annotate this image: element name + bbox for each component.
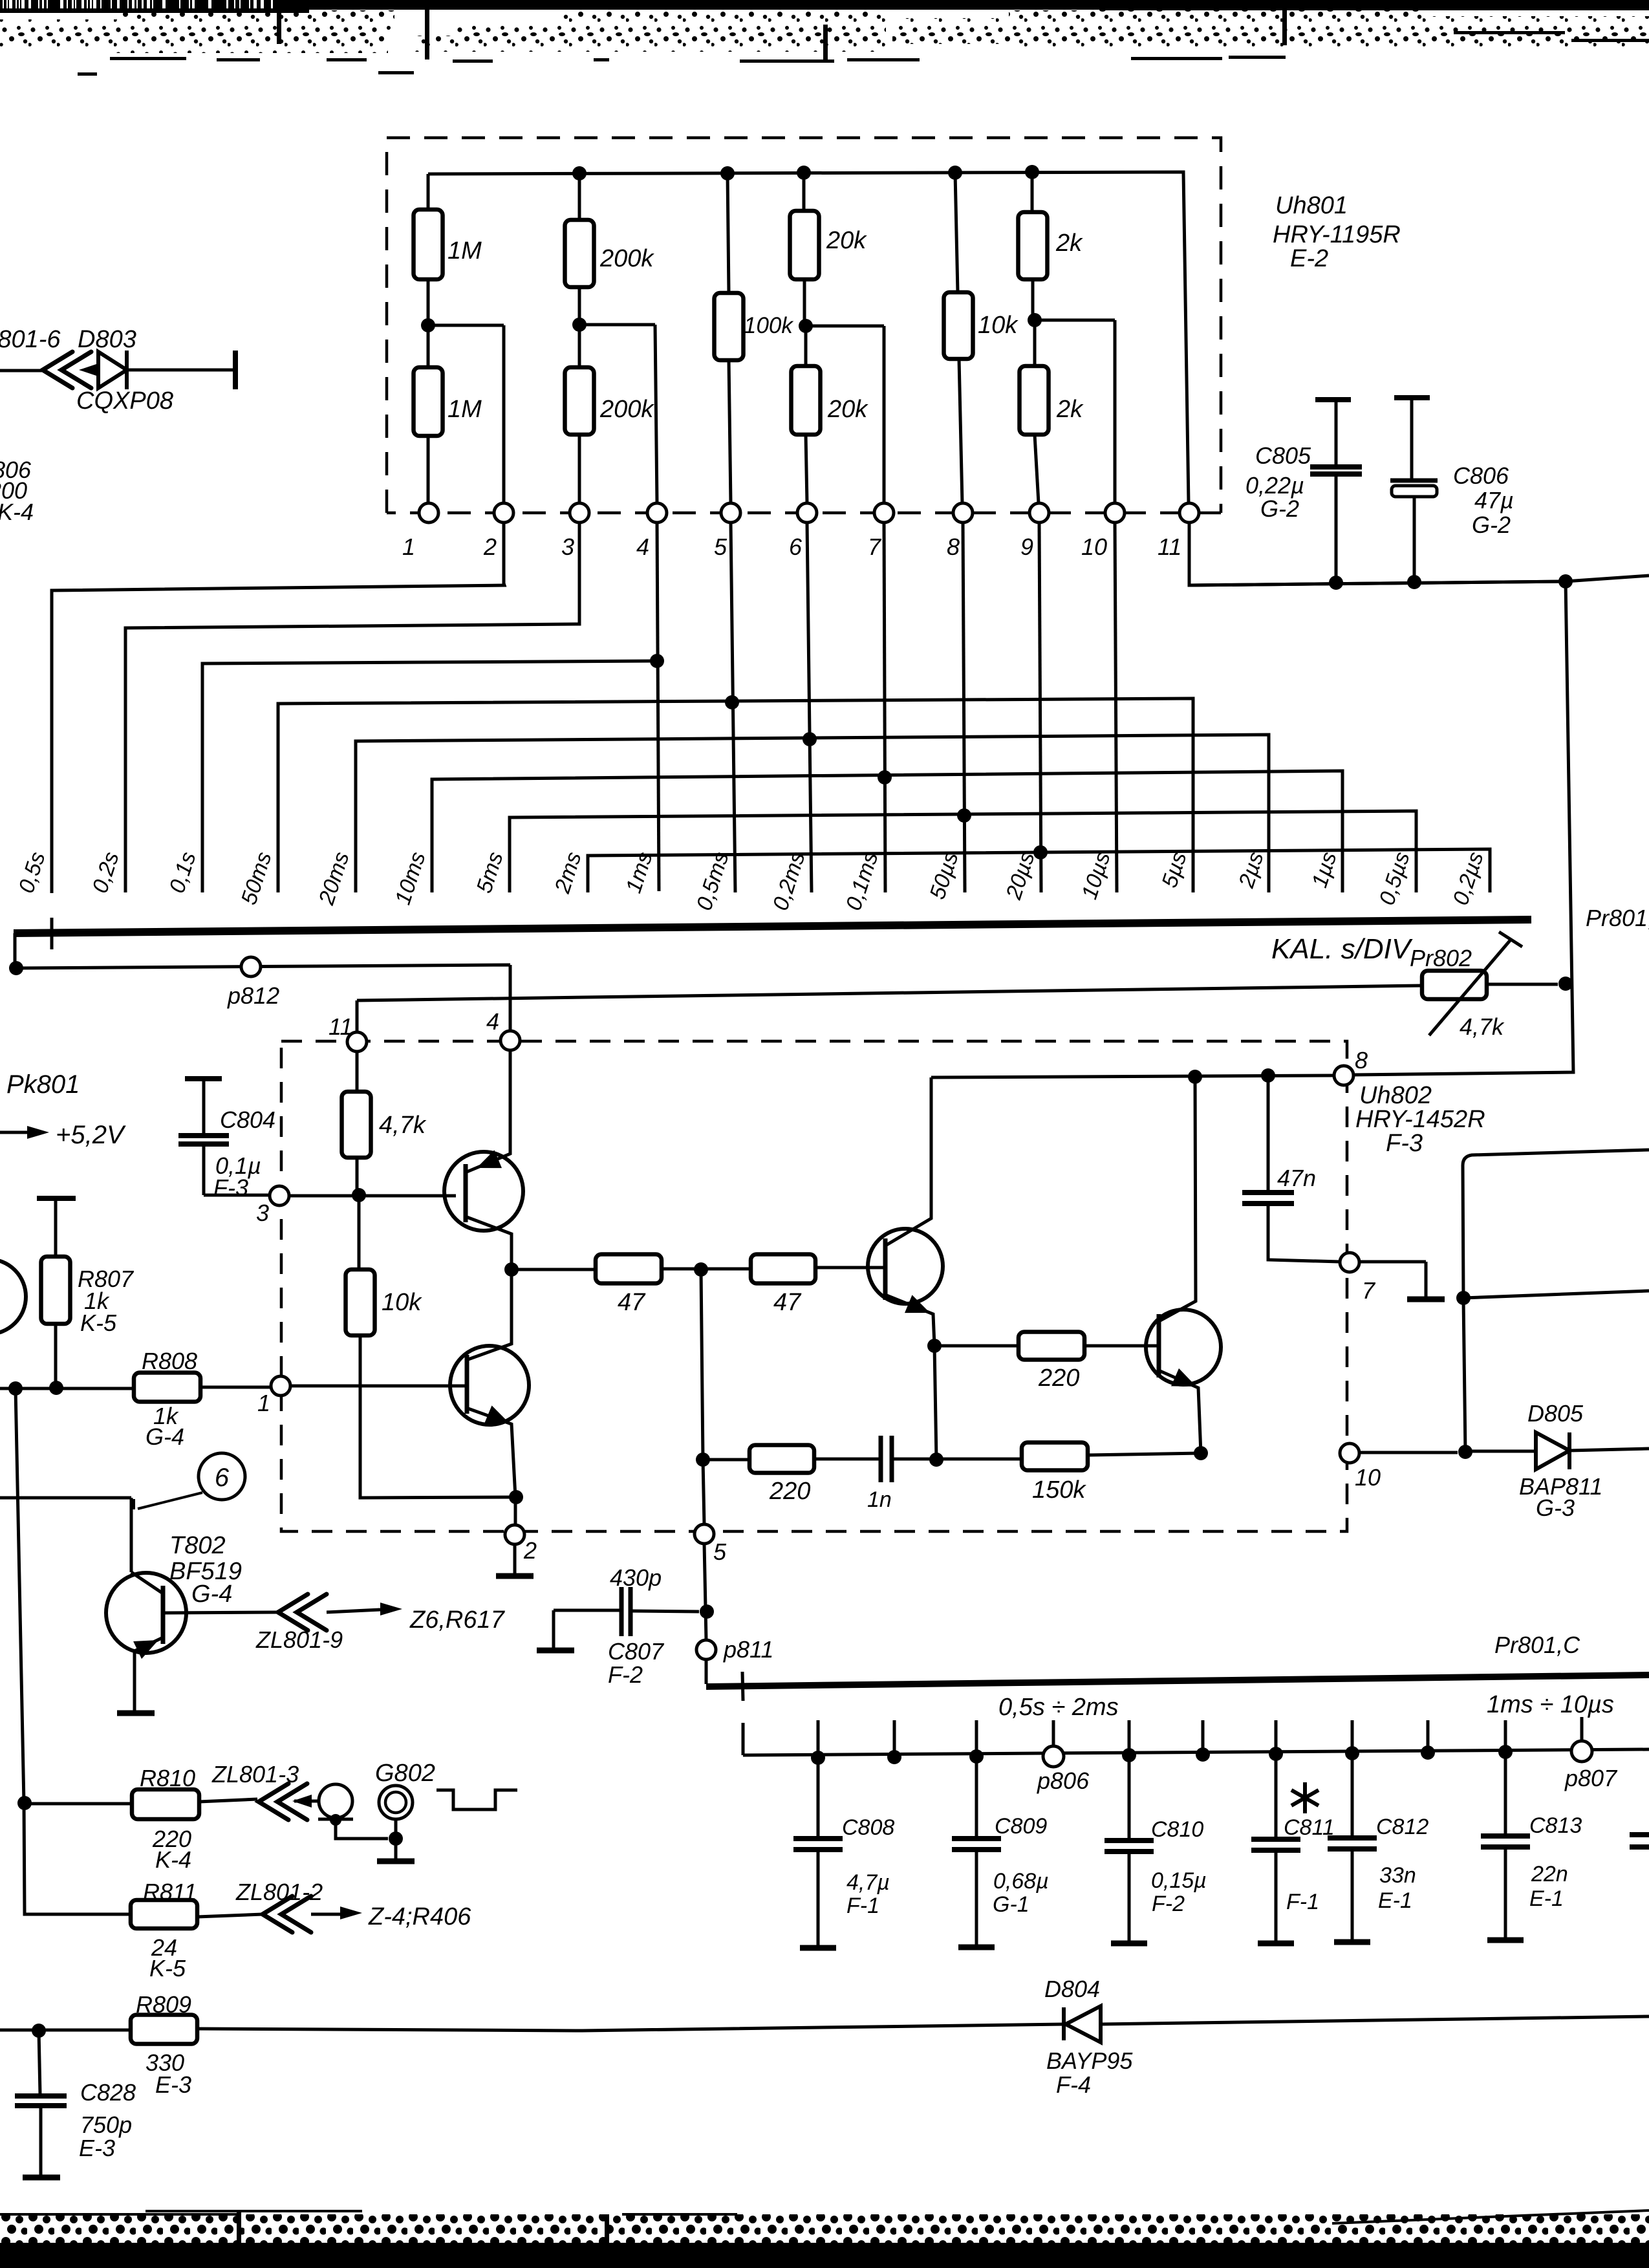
pin 6 of Uh801 <box>797 503 817 523</box>
wire 1M-1 bottom lead <box>427 279 430 325</box>
node dot R807 bottom <box>49 1381 63 1395</box>
wire pin11 to right vertical <box>1189 523 1566 585</box>
pin 8 of Uh801 <box>953 503 973 523</box>
svg-text:5: 5 <box>713 1539 727 1565</box>
resistor R808 <box>134 1373 200 1402</box>
svg-text:20k: 20k <box>826 227 867 254</box>
capacitor C828 <box>39 2031 40 2094</box>
svg-text:K-5: K-5 <box>149 1955 186 1982</box>
resistor 200k lower <box>578 325 581 367</box>
capacitor C813 <box>1504 1752 1507 1834</box>
wire pin7 to ground <box>1359 1262 1426 1297</box>
resistor 47 first <box>512 1268 596 1271</box>
node dot 47n top <box>1261 1068 1275 1083</box>
svg-text:K-5: K-5 <box>80 1310 117 1336</box>
node dot rail x1860 <box>1196 1747 1210 1762</box>
node dot 20k junction <box>799 319 813 333</box>
svg-text:C806: C806 <box>1453 462 1509 489</box>
pin 4 of Uh802 <box>501 1031 520 1050</box>
wire pin4 column down to 1ms tick <box>657 523 659 891</box>
capacitor 47n <box>1267 1075 1270 1191</box>
svg-text:7: 7 <box>868 534 882 560</box>
wire pin10 column to 10µs tick <box>1115 523 1117 892</box>
wire trunk mid to edge <box>1463 1291 1649 1298</box>
svg-text:4,7µ: 4,7µ <box>846 1870 890 1895</box>
wire 10k to pin8 <box>959 359 962 503</box>
capacitor C811 <box>1275 1754 1278 1837</box>
capacitor 1n <box>814 1458 880 1461</box>
wire 200k-1 top lead <box>578 173 581 220</box>
svg-text:0,68µ: 0,68µ <box>993 1869 1049 1894</box>
node dot C806 <box>1407 575 1421 589</box>
svg-text:220: 220 <box>769 1478 810 1505</box>
transistor T802 pnp <box>106 1573 186 1653</box>
svg-text:200k: 200k <box>599 396 654 423</box>
svg-text:G-2: G-2 <box>1260 495 1299 522</box>
wire pin1 to T2 base <box>290 1385 465 1388</box>
wire 2k-1 top lead <box>1031 172 1034 212</box>
svg-text:D804: D804 <box>1044 1976 1100 2002</box>
svg-text:2: 2 <box>483 534 497 560</box>
node dot 200k junction <box>572 318 587 332</box>
svg-text:E-2: E-2 <box>1290 245 1328 272</box>
wire 20k-1 bottom lead <box>803 279 806 326</box>
capacitor C808 <box>817 1758 820 1837</box>
wire pin5 column to 0,5ms tick <box>731 523 735 892</box>
svg-text:1ms ÷ 10µs: 1ms ÷ 10µs <box>1487 1691 1614 1718</box>
pin 5 of Uh801 <box>721 503 740 523</box>
resistor 20k upper <box>790 211 819 279</box>
svg-text:Pr802: Pr802 <box>1410 945 1472 971</box>
node dot row10ms-pin7 <box>878 770 892 784</box>
wire 220 to T4 base <box>1084 1345 1157 1348</box>
stub contact x1973 <box>1275 1720 1278 1754</box>
bus Pr801,C thick line <box>706 1675 1649 1687</box>
wire junction to pin2 <box>428 325 504 503</box>
svg-text:2k: 2k <box>1055 230 1083 257</box>
svg-text:430p: 430p <box>610 1564 662 1591</box>
wire p812 line <box>16 965 510 1031</box>
resistor 220 lower <box>703 1458 749 1462</box>
svg-text:ZL801-3: ZL801-3 <box>211 1761 299 1787</box>
node dot 1M junction <box>421 318 435 332</box>
svg-text:4,7k: 4,7k <box>379 1112 427 1139</box>
socket G802 <box>319 1784 352 1818</box>
svg-text:G-2: G-2 <box>1472 512 1511 538</box>
svg-text:47: 47 <box>773 1289 802 1316</box>
wire row 50ms-5µs <box>278 698 1193 892</box>
svg-text:E-3: E-3 <box>79 2135 115 2161</box>
svg-text:p812: p812 <box>227 982 279 1009</box>
stub contact x1265 <box>817 1720 820 1758</box>
node dot T4 collector <box>1188 1070 1202 1084</box>
wire emitter node to pin2 <box>514 1497 517 1525</box>
ground T802 emitter <box>117 1711 155 1716</box>
stub contact x2208 <box>1427 1720 1430 1753</box>
pin 2 of Uh801 <box>494 503 513 523</box>
node dot row20ms-pin6 <box>803 732 817 746</box>
svg-text:150k: 150k <box>1032 1476 1086 1504</box>
svg-text:750p: 750p <box>80 2111 132 2138</box>
svg-text:R808: R808 <box>142 1348 197 1374</box>
svg-text:1: 1 <box>257 1390 270 1416</box>
pin 4 of Uh801 <box>647 503 667 523</box>
svg-text:KAL. s/DIV: KAL. s/DIV <box>1271 933 1413 965</box>
svg-text:4,7k: 4,7k <box>1460 1013 1505 1040</box>
node dot 47-47 <box>694 1262 708 1277</box>
svg-text:p806: p806 <box>1037 1767 1090 1794</box>
wire node47 down to pin5 <box>701 1269 704 1524</box>
wire C807 to pin5 column <box>630 1611 699 1612</box>
ground G802 <box>377 1859 415 1864</box>
node dot trunk mid <box>1456 1291 1471 1305</box>
wire T802 base to ZL801-9 <box>163 1612 277 1613</box>
wire pin3 to base node <box>289 1194 456 1198</box>
svg-text:Uh802: Uh802 <box>1359 1082 1432 1109</box>
node dot 2k junction <box>1028 313 1042 327</box>
wire 10k feedback to emitter node <box>360 1335 514 1498</box>
potentiometer Pr802 <box>1422 971 1487 999</box>
svg-text:G-3: G-3 <box>1536 1495 1575 1521</box>
svg-text:D803: D803 <box>78 326 136 353</box>
svg-text:C811: C811 <box>1284 1815 1335 1840</box>
svg-text:C808: C808 <box>842 1815 894 1840</box>
node dot rail x2091 <box>1345 1746 1359 1760</box>
node dot G802 ground <box>389 1831 403 1846</box>
svg-text:E-1: E-1 <box>1529 1886 1564 1911</box>
wire 4,7k top lead <box>356 1052 359 1092</box>
svg-text:10k: 10k <box>382 1289 422 1316</box>
stub contact x2328 <box>1504 1720 1507 1752</box>
svg-text:F-4: F-4 <box>1056 2071 1091 2098</box>
svg-text:Z6,R617: Z6,R617 <box>409 1606 506 1634</box>
wire row 2ms-0,2µs <box>588 849 1490 892</box>
svg-text:p811: p811 <box>723 1636 773 1663</box>
svg-text:3: 3 <box>561 534 574 560</box>
wire pin8 column to 50µs tick <box>963 523 965 892</box>
node dot C828 <box>32 2024 46 2038</box>
wire T802 collector line <box>0 1498 131 1572</box>
svg-text:7: 7 <box>1362 1277 1376 1304</box>
pin 8 of Uh802 <box>1334 1066 1353 1085</box>
bus KAL s/DIV thick line <box>14 920 1531 933</box>
node dot D805 branch <box>1458 1445 1472 1459</box>
resistor 2k upper <box>1018 212 1048 279</box>
node dot p811 <box>700 1604 714 1619</box>
node dot T3 emitter <box>927 1339 942 1353</box>
ground below pin2 <box>513 1544 517 1574</box>
wire pin10 to D805 node <box>1359 1451 1458 1454</box>
connector ZL801-3 <box>259 1784 307 1820</box>
svg-text:F-1: F-1 <box>1286 1890 1319 1914</box>
node dot row5ms-pin8 <box>957 808 971 823</box>
resistor 1M upper <box>414 210 443 279</box>
svg-text:11: 11 <box>329 1013 352 1040</box>
svg-text:F-3: F-3 <box>1386 1130 1423 1157</box>
stub contact x1510 <box>975 1720 978 1756</box>
svg-text:F-1: F-1 <box>846 1894 879 1918</box>
wire pin9 column to 20µs tick <box>1039 523 1041 892</box>
pin 10 of Uh802 <box>1340 1443 1359 1463</box>
svg-text:20k: 20k <box>827 396 868 423</box>
svg-text:100k: 100k <box>744 313 793 338</box>
svg-text:F-2: F-2 <box>608 1661 643 1688</box>
svg-text:p807: p807 <box>1564 1765 1618 1791</box>
transistor fragment at left edge <box>0 1259 26 1334</box>
resistor 220 upper <box>934 1345 1018 1348</box>
node dot rail x1746 <box>1122 1748 1136 1762</box>
svg-text:5: 5 <box>714 534 727 560</box>
wire D805 to edge <box>1569 1449 1649 1451</box>
diode D804 <box>1062 2007 1066 2040</box>
svg-text:1M: 1M <box>447 237 482 265</box>
svg-text:R811: R811 <box>143 1879 197 1905</box>
svg-text:ZL801-2: ZL801-2 <box>235 1879 323 1905</box>
svg-text:33n: 33n <box>1379 1863 1416 1888</box>
svg-text:6: 6 <box>789 534 803 560</box>
wire D803 to terminal <box>127 369 234 372</box>
node dot rail x1973 <box>1269 1747 1283 1761</box>
stub contact x1746 <box>1128 1720 1131 1755</box>
svg-text:9: 9 <box>1020 534 1033 560</box>
wire p811 to bus Pr801C <box>705 1659 708 1684</box>
wire pin11 to Pr802 <box>357 986 1422 1000</box>
connector ZL801-6 with diode D803 <box>0 369 43 373</box>
wire pin5 column down <box>704 1544 706 1640</box>
node dot 20k top <box>797 166 811 180</box>
svg-text:+5,2V: +5,2V <box>56 1121 126 1149</box>
svg-text:6: 6 <box>215 1463 230 1492</box>
node dot row0,1s-pin4 <box>650 654 664 668</box>
svg-text:D805: D805 <box>1527 1400 1584 1427</box>
wire pin8 to right riser <box>1353 581 1573 1075</box>
IC Uh802 dashed outline <box>281 1041 1347 1531</box>
wire 47-2 to T3 base <box>815 1266 883 1269</box>
wire junction to pin4 <box>579 325 657 503</box>
svg-text:ZL801-6: ZL801-6 <box>0 326 61 353</box>
node dot Pr802 right <box>1558 977 1573 991</box>
wire T3 emitter link down <box>934 1346 936 1460</box>
node dot p812 line left <box>9 961 23 975</box>
connector ZL801-2 <box>263 1896 311 1932</box>
wire R809 long line <box>0 2029 131 2032</box>
node dot T1-T2 collectors <box>504 1262 519 1277</box>
transistor T1 pnp <box>444 1152 523 1231</box>
capacitor C810 <box>1128 1755 1131 1839</box>
svg-text:Z-4;R406: Z-4;R406 <box>368 1903 471 1930</box>
svg-text:2: 2 <box>523 1537 537 1564</box>
svg-text:1n: 1n <box>867 1487 892 1512</box>
node dot C805 <box>1329 576 1343 590</box>
pin 10 of Uh801 <box>1105 503 1125 523</box>
svg-text:HRY-1452R: HRY-1452R <box>1355 1106 1485 1133</box>
stub contact x1860 <box>1202 1720 1205 1755</box>
wire pin3 cascade 0,2s <box>125 523 579 892</box>
transistor T4 npn <box>1146 1310 1221 1385</box>
wire row 10ms-1µs <box>432 771 1342 892</box>
ground C807 <box>537 1648 574 1654</box>
node dot rail x1383 <box>887 1750 901 1764</box>
svg-text:1M: 1M <box>447 396 482 423</box>
node dot T4 emitter on pin10 row <box>1194 1446 1208 1460</box>
wire to D805 <box>1465 1450 1536 1453</box>
svg-text:11: 11 <box>1158 534 1181 560</box>
svg-text:1: 1 <box>402 534 415 560</box>
wire R809 to D804 to right edge <box>197 2024 1064 2031</box>
wire 1M-2 to pin1 <box>427 436 430 503</box>
node dot right riser top <box>1558 574 1573 589</box>
svg-text:0,22µ: 0,22µ <box>1245 472 1304 499</box>
wire right trunk branch <box>1463 1150 1649 1452</box>
svg-text:K-4: K-4 <box>0 499 34 525</box>
wire 1M-1 top lead <box>427 174 430 210</box>
svg-text:F-2: F-2 <box>1152 1892 1185 1916</box>
wire +5,2V supply arrow <box>0 1131 34 1134</box>
stub contact x1383 <box>893 1720 896 1757</box>
wire 200k-1 bottom lead <box>578 287 581 325</box>
node dot base T1 <box>352 1188 366 1202</box>
svg-text:10: 10 <box>1355 1464 1381 1491</box>
wire tick to cap rail <box>742 1723 745 1755</box>
svg-text:Pr801,C: Pr801,C <box>1494 1632 1580 1658</box>
wire 20k-1 top lead <box>803 173 806 211</box>
svg-text:C807: C807 <box>608 1638 665 1665</box>
svg-text:G-4: G-4 <box>191 1581 232 1608</box>
wire 100k to pin5 <box>729 360 731 503</box>
svg-text:K-4: K-4 <box>155 1846 191 1873</box>
wire collector bus to pin8 <box>931 1075 1334 1077</box>
svg-text:47n: 47n <box>1277 1165 1316 1191</box>
node dot rail x1510 <box>969 1749 984 1764</box>
wire G802 to ZL801-3 arrow <box>294 1800 321 1803</box>
resistor 10k Uh802 <box>358 1195 361 1269</box>
ground at pin7 <box>1407 1297 1445 1302</box>
svg-text:8: 8 <box>1355 1047 1368 1074</box>
capacitor C804 <box>185 1076 222 1081</box>
node dot rail x2328 <box>1498 1745 1513 1759</box>
wire 2k-2 to pin9 <box>1035 435 1039 503</box>
svg-text:0,5s ÷ 2ms: 0,5s ÷ 2ms <box>998 1694 1119 1721</box>
resistor 2k lower <box>1033 320 1037 366</box>
svg-text:220: 220 <box>1038 1365 1079 1392</box>
svg-text:8: 8 <box>947 534 960 560</box>
label C811 asterisk <box>1291 1782 1319 1813</box>
pin 7 of Uh801 <box>874 503 894 523</box>
node p807 <box>1580 1717 1584 1741</box>
svg-text:200k: 200k <box>599 245 654 272</box>
pin 3 of Uh801 <box>570 503 589 523</box>
stub contact x2091 <box>1351 1720 1354 1753</box>
capacitor C806 electrolytic <box>1394 395 1430 400</box>
pin 2 of Uh802 <box>505 1525 524 1544</box>
connector ZL801-9 <box>278 1594 327 1630</box>
svg-text:BAYP95: BAYP95 <box>1046 2047 1133 2074</box>
pin 11 of Uh801 <box>1180 503 1199 523</box>
resistor R811 <box>131 1900 197 1928</box>
IC Uh801 dashed outline <box>387 138 1221 513</box>
svg-text:C810: C810 <box>1151 1817 1203 1842</box>
node dot 100k top <box>720 166 735 180</box>
capacitor partial at right edge <box>1630 1835 1649 1847</box>
pin 3 of Uh802 <box>270 1186 289 1205</box>
resistor 100k <box>715 293 744 360</box>
diode D805 <box>1536 1432 1569 1469</box>
node dot 10k top <box>948 166 962 180</box>
pin 7 of Uh802 <box>1340 1253 1359 1272</box>
wire pin2 cascade 0,5s <box>52 523 504 893</box>
node dot 220-1n row <box>696 1453 710 1467</box>
svg-text:0,15µ: 0,15µ <box>1151 1868 1207 1893</box>
resistor 47 second <box>662 1268 751 1271</box>
wire 2k-1 bottom lead <box>1031 279 1035 320</box>
node dot row2ms-pin9 <box>1033 845 1048 859</box>
wire bus contact tick <box>742 1672 743 1701</box>
svg-text:Uh801: Uh801 <box>1275 192 1348 219</box>
node dot T2 emitter <box>509 1490 523 1504</box>
wire pin11 riser <box>356 1000 359 1032</box>
diode D803 <box>98 352 127 388</box>
svg-text:HRY-1195R: HRY-1195R <box>1273 221 1401 248</box>
svg-text:3: 3 <box>256 1200 269 1226</box>
wire 200k-2 to pin3 <box>578 435 581 503</box>
svg-text:R810: R810 <box>140 1765 195 1791</box>
wire 100k top lead <box>727 173 729 293</box>
resistor 150k <box>936 1458 1022 1461</box>
svg-text:E-3: E-3 <box>155 2071 191 2098</box>
svg-text:C812: C812 <box>1376 1815 1428 1839</box>
wire 4,7k bottom lead <box>356 1158 359 1194</box>
pin 5 of Uh802 <box>695 1524 714 1544</box>
terminal bar <box>233 351 238 389</box>
pin 1 of Uh802 <box>271 1376 290 1396</box>
wire junction to pin7 <box>806 326 884 503</box>
wire row 20ms-2µs <box>356 735 1269 892</box>
svg-text:47µ: 47µ <box>1474 487 1514 513</box>
node p811 <box>696 1640 716 1659</box>
svg-text:Pk801: Pk801 <box>6 1070 80 1099</box>
resistor R810 <box>17 1796 32 1810</box>
capacitor C812 <box>1351 1753 1354 1836</box>
svg-text:E-1: E-1 <box>1378 1888 1412 1913</box>
node dot row50ms-pin5 <box>725 695 739 709</box>
resistor R809 <box>131 2015 197 2044</box>
node dot 2k top <box>1025 165 1039 179</box>
node dot left column top <box>8 1381 23 1396</box>
wire row 5ms-0,5µs <box>510 811 1416 892</box>
svg-text:4: 4 <box>636 534 649 560</box>
resistor 10k <box>944 292 973 359</box>
pin 9 of Uh801 <box>1029 503 1049 523</box>
node dot rail x2208 <box>1421 1745 1435 1760</box>
resistor 1M lower <box>427 325 430 367</box>
resistor R807 <box>37 1196 76 1201</box>
resistor 4,7k <box>342 1092 371 1158</box>
svg-text:10: 10 <box>1081 534 1107 560</box>
node dot rail x1265 <box>811 1751 825 1765</box>
capacitor C809 <box>975 1756 978 1837</box>
svg-text:C813: C813 <box>1529 1813 1582 1838</box>
wire R808 to pin1 <box>200 1386 270 1389</box>
transistor T3 npn <box>868 1229 943 1304</box>
wire pin7 column to 0,1ms tick <box>884 523 885 892</box>
pin 1 of Uh801 <box>419 503 438 523</box>
svg-text:ZL801-9: ZL801-9 <box>255 1626 343 1653</box>
wire left column vertical <box>16 1388 131 1914</box>
node p812 <box>241 957 261 977</box>
wire arrow to Z6,R617 <box>327 1610 380 1612</box>
transistor T2 npn <box>450 1346 529 1425</box>
wire capacitor rail <box>743 1749 1649 1755</box>
